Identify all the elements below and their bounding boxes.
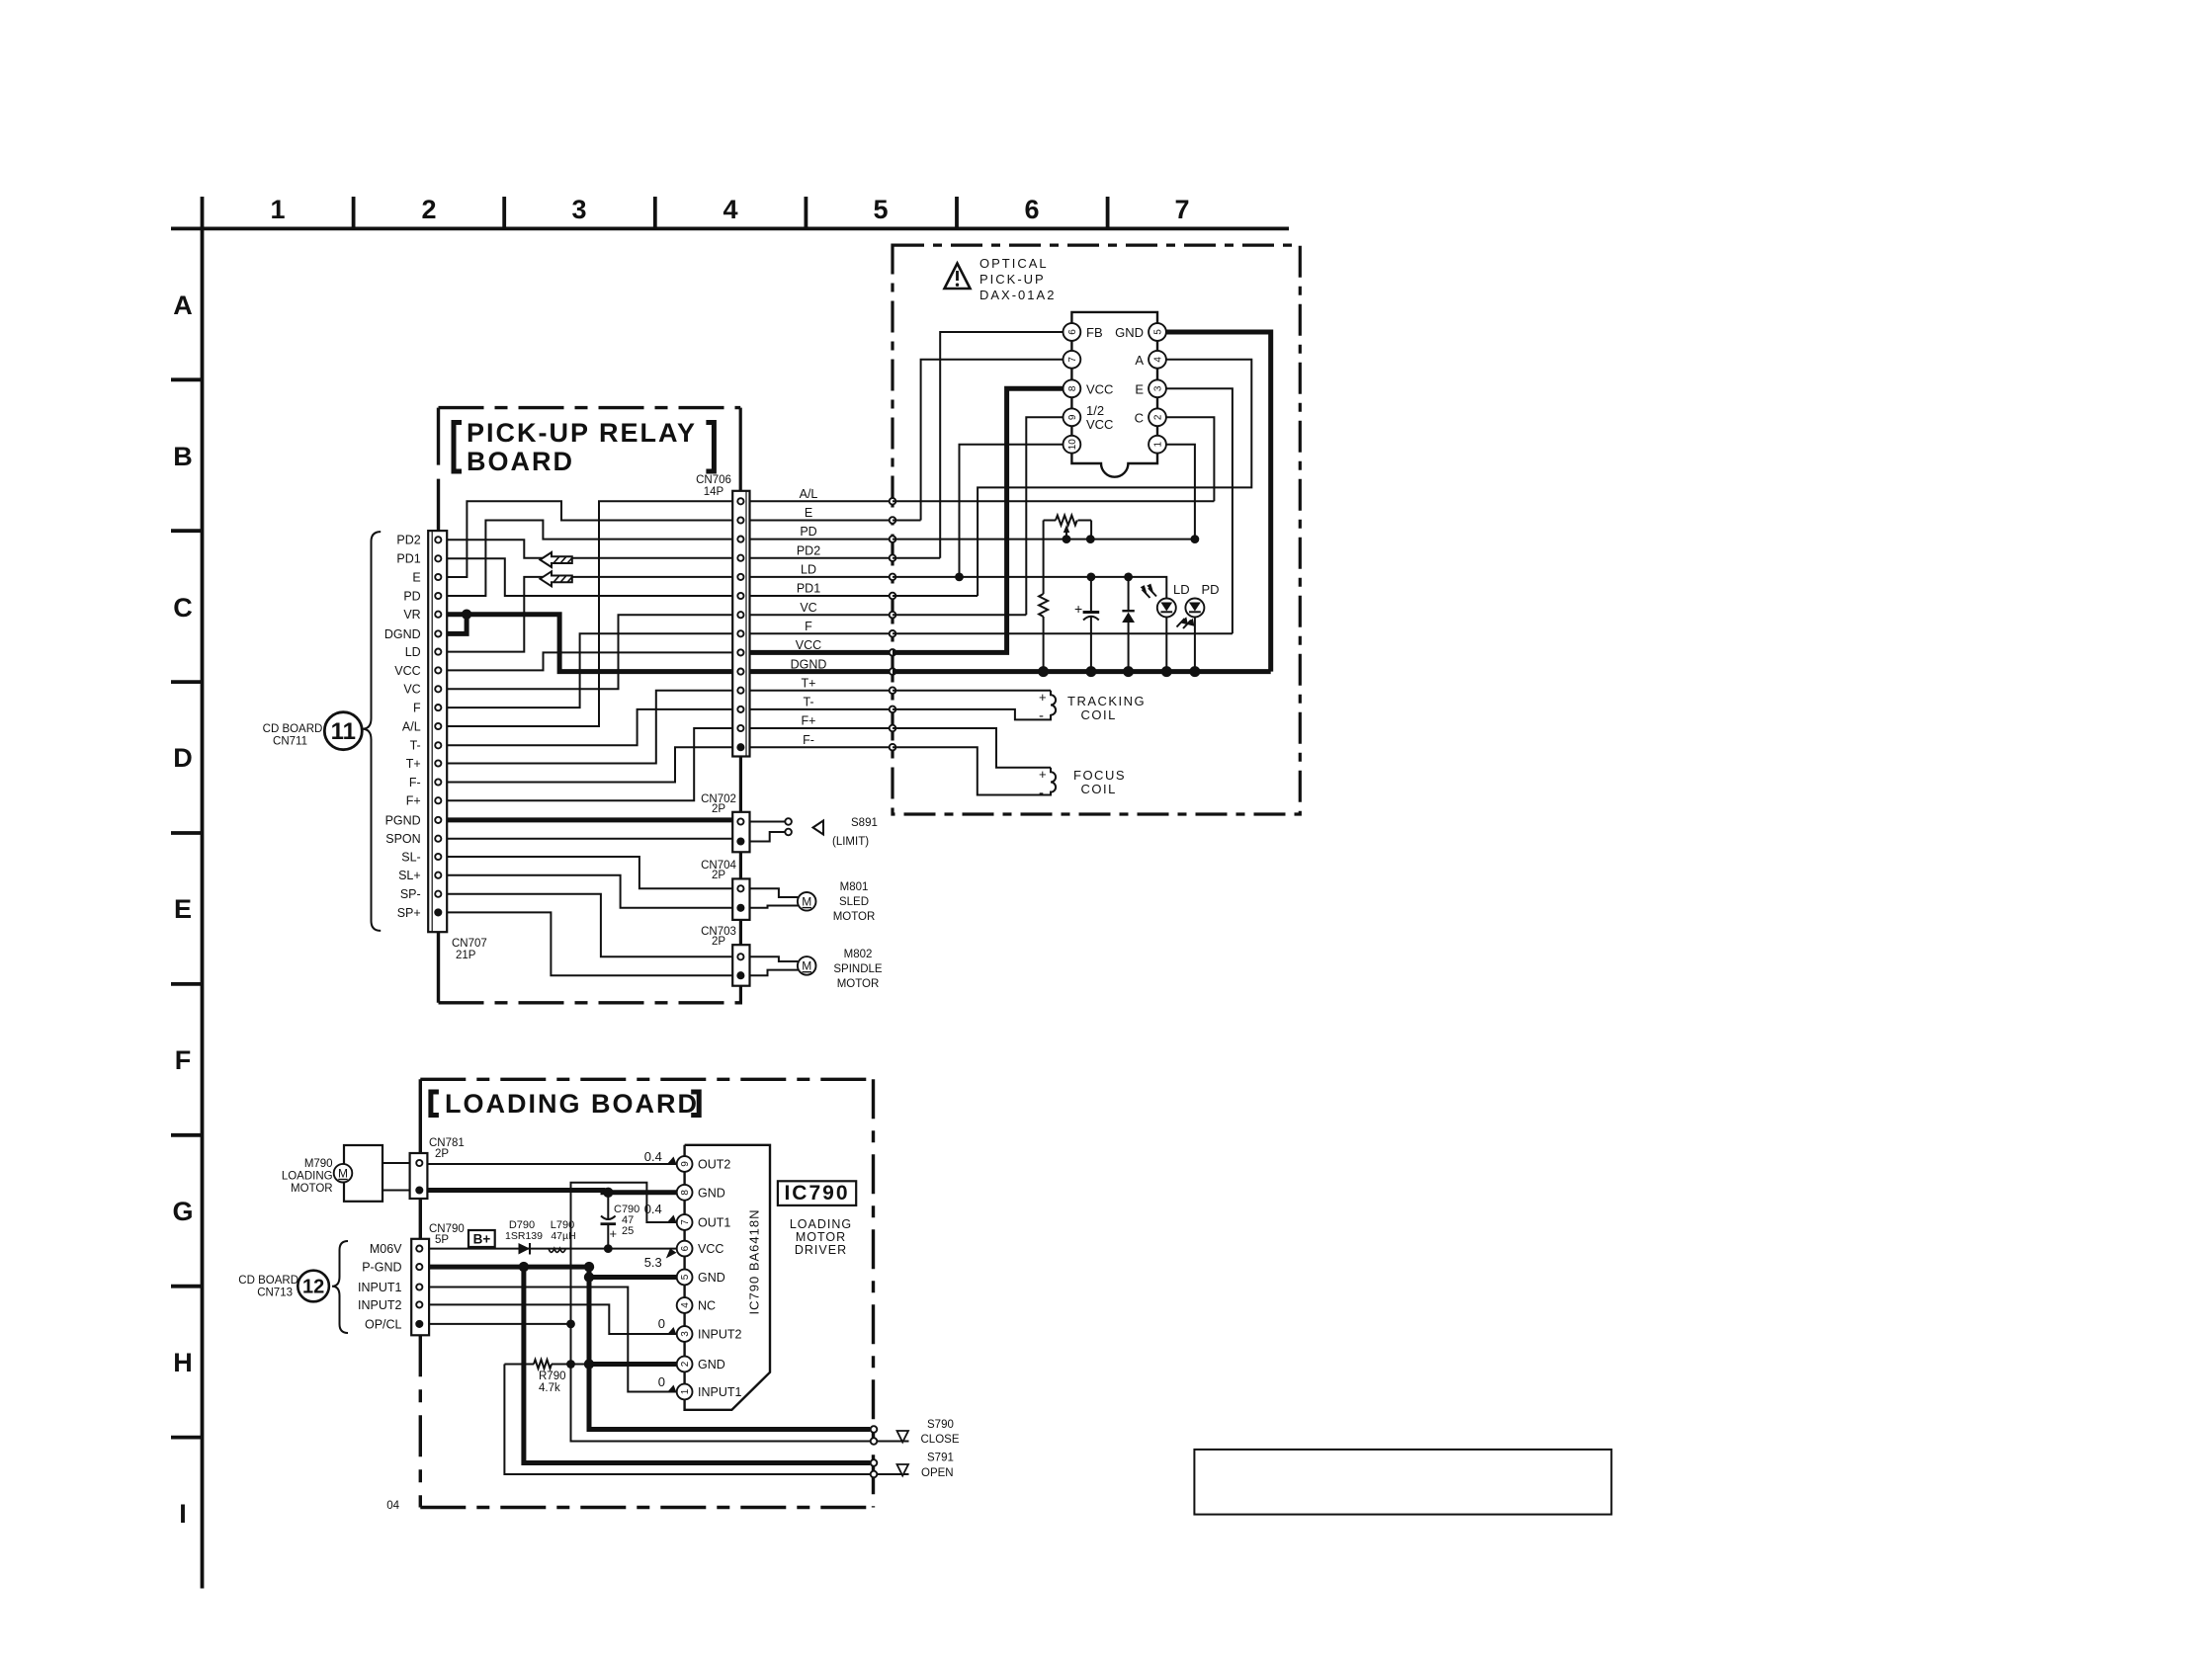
photodiode PD [1177,582,1220,672]
svg-text:25: 25 [622,1225,634,1237]
flex pins right 5,4,3,2,1 [1115,323,1166,454]
svg-text:10: 10 [1067,439,1078,451]
svg-text:8: 8 [1067,385,1078,391]
node 11 (CD board connector callout) [324,712,362,750]
resistor R790 [504,1360,589,1394]
svg-text:5: 5 [873,195,888,224]
svg-text:H: H [173,1348,193,1377]
svg-text:5P: 5P [435,1234,449,1246]
svg-text:6: 6 [1067,329,1078,335]
svg-text:VR: VR [403,608,420,622]
svg-text:INPUT1: INPUT1 [698,1385,742,1399]
svg-text:E: E [1135,382,1144,397]
svg-text:COIL: COIL [1081,707,1117,722]
diode (protection) [1122,577,1135,672]
svg-text:FB: FB [1086,325,1103,340]
svg-text:-: - [1039,785,1044,801]
svg-text:4: 4 [1153,357,1164,363]
svg-text:MOTOR: MOTOR [796,1230,846,1244]
svg-text:LD: LD [801,563,816,577]
wire LD [448,577,732,652]
svg-text:M: M [802,959,811,973]
svg-text:SL-: SL- [401,850,420,864]
board title LOADING BOARD [428,1089,701,1119]
svg-text:SL+: SL+ [398,869,421,882]
svg-text:E: E [805,506,812,520]
wire PD2 [448,540,732,557]
wire PGND (thick) [448,817,732,822]
ground bus DGND (thick) [893,669,1271,674]
svg-text:VCC: VCC [1086,382,1113,397]
svg-text:D: D [173,743,193,773]
wire OUT2 [427,1163,676,1165]
svg-text:MOTOR: MOTOR [837,978,880,990]
optical pick-up title [979,256,1056,302]
IC790 reference label box [778,1181,856,1257]
svg-text:3: 3 [1153,385,1164,391]
svg-text:PD: PD [1202,582,1220,597]
svg-text:6: 6 [1024,195,1039,224]
svg-text:OP/CL: OP/CL [365,1317,402,1331]
wire PD1 [448,558,732,596]
flow arrow upper [540,552,571,567]
voltage annotations [644,1149,677,1392]
svg-text:LOADING: LOADING [790,1217,852,1231]
svg-text:12: 12 [302,1277,324,1298]
svg-text:M790: M790 [304,1158,333,1170]
svg-text:M802: M802 [844,949,873,960]
IC790 body [685,1145,770,1410]
svg-text:S790: S790 [927,1419,954,1431]
flow arrow lower [540,571,571,586]
wire R790 to S791 [504,1365,870,1475]
svg-text:F: F [413,702,421,715]
svg-text:PD: PD [403,589,420,603]
svg-text:1/2: 1/2 [1086,403,1104,418]
svg-text:SP-: SP- [400,887,421,901]
svg-text:+: + [1039,767,1047,782]
wire A/L [448,501,732,726]
CD BOARD CN713 label and brace [238,1241,348,1333]
wire pin8 VCC (thick) [893,388,1063,652]
svg-text:COIL: COIL [1081,782,1117,796]
svg-text:+: + [1074,601,1082,617]
svg-text:A/L: A/L [800,487,818,501]
svg-text:PD1: PD1 [396,552,420,566]
svg-text:VCC: VCC [394,664,420,678]
wire F [448,633,732,707]
svg-text:I: I [179,1499,187,1529]
svg-text:VC: VC [800,601,816,615]
connector CN707 21P [428,531,487,961]
svg-text:DRIVER: DRIVER [795,1243,847,1257]
wire pin1 to PD row [893,445,1195,540]
inductor L790 [549,1219,576,1252]
svg-text:VCC: VCC [1086,417,1113,432]
svg-text:NC: NC [698,1299,716,1313]
wire pin9 1/2VCC to VC row [893,417,1063,615]
svg-text:OPEN: OPEN [921,1467,954,1479]
svg-text:4.7k: 4.7k [539,1382,560,1394]
svg-text:R790: R790 [539,1371,566,1382]
tracking coil [893,690,1146,724]
svg-text:INPUT1: INPUT1 [358,1281,402,1294]
svg-text:CD BOARD: CD BOARD [263,723,323,735]
wire pin4 A to PD1 row [893,360,1251,596]
warning triangle [945,264,971,290]
B+ supply tag [468,1230,495,1247]
wire SP- [448,894,732,957]
svg-text:TRACKING: TRACKING [1067,694,1146,708]
svg-text:2: 2 [421,195,436,224]
svg-text:2P: 2P [712,870,725,881]
svg-text:9: 9 [680,1161,691,1167]
svg-text:GND: GND [698,1358,725,1371]
wire pin6 FB to PD2 row [893,332,1063,558]
wire VR/DGND (thick) [448,615,732,672]
svg-text:6: 6 [680,1245,691,1251]
wire P-GND branch to S791 (thick) [524,1267,870,1462]
svg-text:CN711: CN711 [273,736,307,748]
svg-text:LD: LD [1173,582,1190,597]
LD supply row wire [893,577,1166,599]
svg-text:-: - [1039,707,1044,724]
svg-text:04: 04 [386,1500,399,1512]
wire SL+ [448,875,732,908]
svg-text:GND: GND [698,1271,725,1285]
CN707 signal labels [384,534,421,920]
border feedthrough nodes [890,498,896,751]
svg-text:P-GND: P-GND [362,1261,401,1275]
svg-text:SPON: SPON [385,832,420,846]
svg-text:CN706: CN706 [696,474,731,486]
svg-text:PICK-UP RELAY: PICK-UP RELAY [467,418,697,448]
svg-text:A/L: A/L [402,719,421,733]
board title PICK-UP RELAY BOARD [452,418,717,476]
svg-text:+: + [610,1226,618,1241]
junction VR node [462,610,471,620]
svg-text:SPINDLE: SPINDLE [833,963,883,975]
svg-text:5: 5 [680,1274,691,1280]
svg-text:LOADING BOARD: LOADING BOARD [445,1089,699,1119]
svg-text:PD2: PD2 [396,534,420,547]
wire pin10 to LD row [960,445,1063,577]
svg-text:IC790 BA6418N: IC790 BA6418N [747,1209,762,1315]
wire F+ [448,728,732,800]
svg-text:4: 4 [723,195,737,224]
svg-text:(LIMIT): (LIMIT) [832,836,869,848]
IC790 pins [677,1156,693,1399]
svg-text:0.4: 0.4 [644,1149,662,1164]
svg-text:C: C [173,593,193,623]
svg-text:0.4: 0.4 [644,1202,662,1216]
svg-text:F+: F+ [406,794,421,808]
variable resistor VR adjust [1044,516,1092,595]
svg-text:11: 11 [331,718,356,745]
wire PD [448,521,732,597]
svg-text:2P: 2P [712,936,725,948]
svg-text:1SR139: 1SR139 [505,1230,543,1242]
note box (empty) [1194,1450,1611,1515]
wire OP/CL [429,1323,570,1325]
wire T+ [448,691,732,764]
svg-text:T+: T+ [406,757,421,771]
svg-text:PD: PD [800,525,816,539]
svg-text:OPTICAL: OPTICAL [979,256,1049,271]
svg-text:SP+: SP+ [397,906,421,920]
wires CN706 to optical border [750,501,890,747]
wire SL- [448,857,732,888]
svg-text:7: 7 [680,1219,691,1225]
wire M06V / VCC [429,1248,677,1250]
CD BOARD CN711 label and brace [263,532,382,931]
svg-text:M: M [338,1166,348,1180]
switch S791 open [871,1453,954,1480]
wire INPUT2 [429,1304,677,1334]
svg-text:T+: T+ [802,677,816,691]
wire pin2 C to A/L row [893,417,1214,501]
svg-text:14P: 14P [704,486,724,498]
LOADING BOARD outline [420,1079,873,1507]
svg-text:2P: 2P [435,1148,449,1160]
motor M790 loading [282,1145,383,1202]
wire VCC [448,652,732,670]
resistor (LD bias) [1039,594,1048,672]
svg-text:VC: VC [403,683,420,697]
svg-text:A: A [173,291,193,320]
svg-text:21P: 21P [456,950,476,961]
CN706 row labels [791,487,827,747]
svg-text:MOTOR: MOTOR [833,911,876,923]
diode D790 [505,1219,543,1255]
OPTICAL PICK-UP board outline [893,245,1300,814]
svg-text:G: G [172,1197,193,1226]
svg-text:GND: GND [698,1186,725,1200]
connector CN790 5P [411,1223,465,1335]
wire T- [448,709,732,745]
svg-text:F-: F- [803,733,814,747]
svg-text:7: 7 [1067,357,1078,363]
svg-text:C: C [1135,411,1144,426]
node 12 (CD board connector callout) [298,1271,329,1302]
wire INPUT1 [429,1288,677,1392]
svg-text:PD2: PD2 [797,544,820,558]
svg-text:OUT1: OUT1 [698,1216,730,1230]
svg-text:IC790: IC790 [784,1182,849,1205]
svg-text:2: 2 [1153,414,1164,420]
svg-text:CD BOARD: CD BOARD [238,1275,298,1287]
svg-text:S891: S891 [851,817,878,829]
svg-text:MOTOR: MOTOR [291,1183,333,1195]
grid ruler frame [171,195,1289,1589]
wire pin3 E to F row [893,388,1233,633]
svg-text:M801: M801 [840,881,869,893]
wire E [448,501,732,577]
connector CN781 2P [383,1137,465,1199]
svg-text:CN707: CN707 [452,938,487,950]
wire F- [448,747,732,782]
svg-text:7: 7 [1174,195,1189,224]
connector CN706 14P [696,474,749,757]
motor M801 sled [750,881,876,923]
svg-text:F+: F+ [802,714,816,728]
wire SP+ [448,912,732,975]
svg-text:GND: GND [1115,325,1144,340]
svg-text:M06V: M06V [370,1242,402,1256]
flex pins left 6,7,8,9,10 [1063,323,1114,454]
wire SPON [448,838,732,840]
svg-text:F: F [805,620,812,633]
svg-text:F-: F- [409,776,421,789]
PICK-UP RELAY BOARD outline [439,408,743,1003]
svg-text:LD: LD [405,645,421,659]
svg-text:5.3: 5.3 [644,1255,662,1270]
svg-text:B+: B+ [473,1232,491,1247]
switch S790 close [871,1419,960,1446]
svg-text:0: 0 [658,1316,665,1331]
svg-text:M: M [802,895,811,909]
svg-text:T-: T- [410,739,421,753]
wire pin5 GND (thick) [1166,332,1271,672]
svg-text:9: 9 [1067,414,1078,420]
pick-up flex connector body [1071,312,1157,477]
connector CN702 2P [701,793,749,852]
laser diode LD [1141,582,1190,672]
wire pin7 to E row [893,360,1063,521]
wire P-GND (thick) [429,1267,677,1277]
svg-text:47µH: 47µH [551,1230,575,1242]
svg-text:FOCUS: FOCUS [1073,768,1126,783]
svg-text:1: 1 [680,1388,691,1394]
CN790 signal labels [358,1242,402,1331]
connector CN703 2P [701,926,749,986]
focus coil [893,728,1126,801]
junction dots on LD row and bus [955,535,1200,677]
svg-text:PD1: PD1 [797,582,820,596]
svg-text:0: 0 [658,1374,665,1389]
svg-text:DGND: DGND [384,627,421,641]
svg-text:B: B [173,442,193,471]
svg-text:VCC: VCC [698,1242,723,1256]
svg-text:E: E [174,894,192,924]
switch S891 wiring [750,817,878,848]
svg-text:LOADING: LOADING [282,1171,333,1183]
svg-text:3: 3 [680,1331,691,1337]
connector CN704 2P [701,860,749,920]
svg-text:8: 8 [680,1190,691,1196]
svg-text:5: 5 [1153,329,1164,335]
svg-text:F: F [175,1045,192,1075]
svg-text:1: 1 [270,195,285,224]
svg-text:INPUT2: INPUT2 [358,1298,402,1312]
svg-text:CN713: CN713 [257,1288,293,1299]
svg-text:1: 1 [1153,441,1164,447]
capacitor (electrolytic) [1074,577,1099,672]
GND spine (thick) [589,1267,870,1429]
junction dots GND/VCC [603,1188,613,1198]
motor M802 spindle [750,949,883,990]
svg-text:+: + [1039,690,1047,705]
wire GND pin8 (thick) [427,1191,676,1193]
wire OUT1 to S790 [571,1183,871,1442]
capacitor C790 [601,1193,640,1249]
svg-text:3: 3 [571,195,586,224]
svg-text:S791: S791 [927,1453,954,1464]
svg-text:E: E [412,570,420,584]
IC790 pin labels [698,1158,742,1400]
svg-text:DAX-01A2: DAX-01A2 [979,288,1056,302]
svg-text:4: 4 [680,1302,691,1308]
svg-text:A: A [1135,353,1144,368]
svg-text:INPUT2: INPUT2 [698,1328,742,1342]
svg-text:CLOSE: CLOSE [921,1434,960,1446]
svg-text:PGND: PGND [385,813,421,827]
svg-text:SLED: SLED [839,896,869,908]
wire VC [448,615,732,689]
svg-text:T-: T- [803,696,813,709]
svg-text:2P: 2P [712,803,725,815]
svg-text:PICK-UP: PICK-UP [979,272,1046,287]
svg-text:OUT2: OUT2 [698,1158,730,1172]
svg-text:BOARD: BOARD [467,447,574,476]
svg-text:2: 2 [680,1361,691,1367]
